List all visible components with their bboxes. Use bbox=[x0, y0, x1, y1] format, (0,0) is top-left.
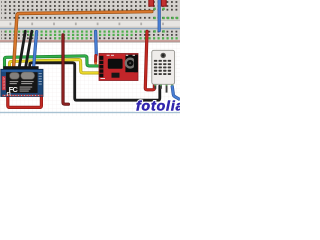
svg-text:fotolia: fotolia bbox=[136, 97, 180, 113]
